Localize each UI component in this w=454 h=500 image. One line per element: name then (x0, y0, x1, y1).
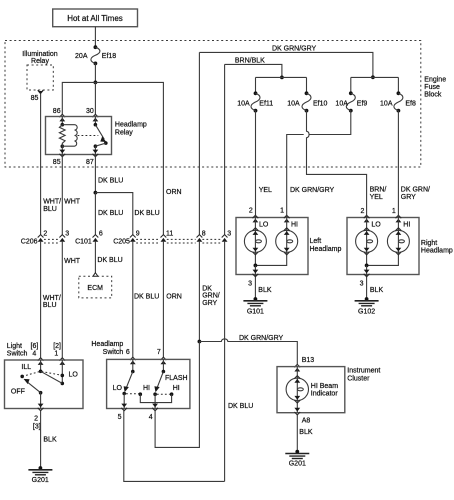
label DK GRN/GRY right HI (401, 186, 430, 201)
svg-text:11: 11 (166, 230, 173, 237)
svg-text:Block: Block (424, 92, 442, 99)
svg-text:Ef11: Ef11 (259, 100, 273, 107)
svg-text:DK BLU: DK BLU (97, 257, 122, 264)
relay U: headlamp relay box (46, 117, 112, 155)
svg-text:LO: LO (371, 222, 381, 229)
node junction on DK BLU (94, 191, 98, 195)
wire junction to ORN drop (95, 82, 163, 234)
svg-text:BLK: BLK (43, 437, 57, 444)
node junction DK GRN/GRY at instrument branch (198, 340, 202, 344)
svg-text:Hot at All Times: Hot at All Times (67, 14, 123, 23)
wire Ef10 top feed (306, 77, 308, 93)
svg-text:[3]: [3] (33, 424, 41, 431)
wire DK BLU junction to C101 pin 6 (94, 193, 96, 235)
wire DK BLU C205-9 to headlamp switch pin 6 (132, 242, 134, 358)
wire DK BLU relay 87 down to junction (94, 155, 96, 193)
wire DK GRN/GRY C205 pin 8 column (198, 52, 200, 234)
wire DK GRN/GRY junction down to headlamp switch pin 4 (155, 342, 199, 448)
svg-text:3: 3 (248, 281, 252, 288)
ground G101 (243, 297, 267, 316)
headlamp switch pin 5 exit arrow (121, 404, 127, 411)
label Light Switch (7, 343, 28, 358)
left headlamp pin 1 entry arrow (284, 215, 290, 222)
fuse Ef11 10A (237, 91, 273, 112)
svg-text:BRN/BLK: BRN/BLK (235, 58, 265, 65)
wire DK GRN/GRY bus top (199, 52, 373, 77)
svg-text:GRN/: GRN/ (202, 293, 220, 300)
headlamp switch pin 6 entry arrow (130, 357, 136, 364)
svg-text:9: 9 (136, 230, 140, 237)
svg-text:ORN: ORN (166, 294, 182, 301)
svg-text:HI: HI (173, 385, 180, 392)
svg-text:DK BLU: DK BLU (228, 403, 253, 410)
right headlamp box (347, 218, 419, 275)
node right headlamp common junction (365, 264, 369, 268)
wire DK BLU C101-6 to ECM (94, 242, 96, 273)
svg-text:6: 6 (126, 349, 130, 356)
svg-text:2: 2 (34, 416, 38, 423)
wire Ef10 with hop over Ef9 jog (307, 111, 367, 216)
node BRN/BLK junction on fuse bus (280, 76, 284, 80)
pin 86 entry arrow (59, 114, 65, 121)
svg-text:FLASH: FLASH (165, 375, 188, 382)
svg-text:85: 85 (53, 159, 61, 166)
light switch pin 2 exit arrow (38, 404, 44, 411)
svg-text:BLK: BLK (258, 287, 272, 294)
wire YEL Ef11 to left headlamp pin 2 (255, 111, 257, 216)
ground G201 light switch (28, 466, 52, 484)
node junction below Ef18 (94, 81, 98, 85)
svg-text:C101: C101 (75, 239, 92, 246)
instrument cluster A8 exit arrow (294, 408, 300, 415)
wire fuse Ef18 to junction (94, 63, 96, 82)
node Hot at All Times box (53, 9, 138, 27)
switch S2: headlamp switch box (107, 359, 190, 408)
wire WHT/BLU C206-2 to light switch pin 4 (40, 242, 42, 358)
node DK GRN/GRY junction on fuse bus (371, 75, 375, 79)
headlamp switch pin 7 entry arrow (161, 357, 167, 364)
ECM dashed box (79, 276, 112, 298)
wire BRN/BLK bus (225, 64, 282, 77)
svg-text:ECM: ECM (87, 285, 103, 292)
wire BRN/BLK C205 pin 3 column (224, 64, 226, 234)
svg-text:Fuse: Fuse (424, 84, 440, 91)
svg-text:DK BLU: DK BLU (134, 210, 159, 217)
svg-text:3: 3 (360, 281, 364, 288)
wire bus Ef11-Ef10 (256, 76, 307, 78)
svg-text:Headlamp: Headlamp (310, 246, 342, 253)
svg-text:Engine: Engine (424, 76, 446, 83)
label WHT/BLU (43, 199, 61, 213)
svg-text:4: 4 (149, 414, 153, 421)
svg-text:C205: C205 (113, 239, 130, 246)
svg-text:Ef9: Ef9 (357, 100, 368, 107)
wire from Hot at All Times down to fuse Ef18 (94, 27, 96, 47)
wire right headlamp to ground (366, 265, 368, 299)
svg-text:WHT: WHT (64, 258, 81, 265)
svg-text:Instrument: Instrument (347, 368, 380, 375)
svg-text:C206: C206 (21, 239, 38, 246)
svg-text:HI: HI (143, 385, 150, 392)
svg-text:ILL: ILL (21, 364, 31, 371)
engine fuse block dashed border (5, 41, 421, 168)
lamp LO left headlamp (244, 215, 266, 265)
svg-text:Headlamp: Headlamp (91, 341, 123, 348)
connector C101 (75, 230, 103, 245)
wire DK GRN/GRY junction to instrument cluster B13 with hop (199, 339, 297, 364)
illumination relay dashed box (27, 65, 53, 90)
svg-text:7: 7 (157, 349, 161, 356)
svg-text:3: 3 (65, 230, 69, 237)
right headlamp pin 3 exit arrow (364, 270, 370, 277)
wire WHT/BLU illumination relay 85 to C206 pin 2 (40, 94, 42, 235)
right headlamp pin 2 entry arrow (364, 215, 370, 222)
svg-text:ORN: ORN (166, 189, 182, 196)
node left headlamp common junction (254, 264, 258, 268)
svg-text:86: 86 (53, 108, 61, 115)
svg-text:HI: HI (291, 222, 298, 229)
label BRN/YEL (370, 186, 387, 201)
svg-text:1: 1 (54, 351, 58, 358)
lamp HI left headlamp (255, 215, 297, 265)
svg-text:DK GRN/GRY: DK GRN/GRY (272, 46, 317, 53)
lamp HI right headlamp (367, 215, 410, 265)
svg-text:5: 5 (118, 414, 122, 421)
svg-text:BLU: BLU (43, 206, 57, 213)
ground G102 (355, 297, 379, 316)
label Engine Fuse Block (424, 76, 446, 98)
wire DK GRN/GRY Ef8 to right headlamp pin 1 (397, 111, 399, 216)
svg-text:G101: G101 (247, 309, 264, 316)
svg-text:10A: 10A (287, 100, 300, 107)
connector C206 (21, 230, 69, 245)
svg-text:1: 1 (280, 208, 284, 215)
svg-text:BLU: BLU (43, 302, 57, 309)
svg-text:HI: HI (403, 222, 410, 229)
left headlamp pin 3 exit arrow (253, 270, 259, 277)
svg-text:2: 2 (360, 208, 364, 215)
svg-text:OFF: OFF (11, 388, 25, 395)
svg-text:85: 85 (31, 95, 39, 102)
svg-text:DK BLU: DK BLU (98, 178, 123, 185)
svg-text:DK: DK (202, 285, 212, 292)
pin 85 exit arrow of illumination relay (31, 90, 44, 102)
label Right Headlamp (421, 240, 453, 255)
label WHT/BLU lower (43, 295, 61, 309)
svg-text:Ef18: Ef18 (102, 53, 117, 60)
fuse Ef8 10A (380, 91, 416, 112)
light switch pin 4 entry arrow (38, 358, 44, 365)
svg-text:8: 8 (202, 230, 206, 237)
relay coil (59, 117, 77, 149)
svg-text:10A: 10A (380, 100, 393, 107)
ECM entry triangle (93, 273, 98, 277)
connector C205 (113, 230, 231, 245)
wire ORN C205-11 to headlamp switch pin 7 (162, 242, 164, 358)
headlamp switch pin 4 exit arrow (152, 404, 158, 411)
right headlamp pin 1 entry arrow (396, 215, 402, 222)
svg-text:6: 6 (99, 230, 103, 237)
svg-text:2: 2 (249, 208, 253, 215)
svg-text:BLK: BLK (370, 287, 384, 294)
svg-text:30: 30 (86, 108, 94, 115)
fuse Ef18 20A (75, 45, 116, 65)
svg-text:YEL: YEL (259, 187, 272, 194)
wire DK BLU bottom to headlamp switch pin 5 (124, 411, 225, 482)
svg-text:WHT: WHT (64, 199, 81, 206)
svg-text:Light: Light (7, 343, 22, 350)
fuse Ef9 10A (335, 91, 367, 112)
svg-text:10A: 10A (335, 100, 348, 107)
svg-text:[2]: [2] (53, 343, 61, 350)
svg-text:Left: Left (310, 238, 322, 245)
svg-text:DK BLU: DK BLU (98, 210, 123, 217)
pin 85 exit arrow (59, 150, 65, 157)
relay coil-switch dashed link (78, 135, 99, 137)
svg-text:Ef8: Ef8 (405, 100, 416, 107)
svg-text:2: 2 (43, 230, 47, 237)
svg-text:Relay: Relay (115, 129, 133, 136)
wire DK BLU C205-3 down (224, 242, 226, 482)
svg-text:GRY: GRY (401, 194, 416, 201)
fuse Ef10 10A (287, 91, 327, 112)
svg-text:DK BLU: DK BLU (134, 294, 159, 301)
svg-text:Relay: Relay (31, 58, 49, 65)
svg-text:LO: LO (259, 222, 269, 229)
svg-text:Illumination: Illumination (22, 51, 58, 58)
svg-text:DK GRN/: DK GRN/ (401, 186, 430, 193)
wire DK GRN/GRY C205-8 down to junction (198, 242, 200, 342)
wire WHT C206-3 to light switch pin 1 (61, 242, 63, 358)
label Illumination Relay (22, 51, 58, 65)
label Instrument Cluster (347, 368, 380, 383)
svg-text:DK GRN/GRY: DK GRN/GRY (290, 187, 335, 194)
svg-text:WHT/: WHT/ (43, 199, 61, 206)
svg-text:1: 1 (392, 208, 396, 215)
svg-text:G102: G102 (358, 309, 375, 316)
wire continuation after hop (287, 135, 304, 216)
ground G201 instrument cluster (285, 450, 309, 468)
light switch internals (11, 360, 78, 409)
label Left Headlamp (310, 238, 342, 253)
wire Ef8 top feed (397, 77, 399, 93)
label DK GRN/GRY mid column (202, 285, 220, 307)
wire left headlamp to ground (254, 265, 256, 299)
wire Ef9 top feed (350, 77, 352, 93)
svg-text:10A: 10A (237, 100, 250, 107)
switch S1: light switch box (5, 360, 84, 409)
label HI Beam Indicator (311, 383, 339, 397)
svg-text:Switch: Switch (103, 349, 124, 356)
svg-text:4: 4 (32, 351, 36, 358)
svg-text:Ef10: Ef10 (313, 100, 328, 107)
left headlamp box (236, 218, 308, 275)
svg-text:20A: 20A (75, 53, 88, 60)
svg-text:Cluster: Cluster (347, 376, 370, 383)
instrument cluster B13 entry arrow (294, 364, 300, 371)
wire Ef9 jog to left headlamp pin 1 (309, 111, 351, 135)
wire bus Ef9-Ef8 (351, 76, 399, 78)
svg-text:LO: LO (69, 372, 79, 379)
svg-text:G201: G201 (32, 477, 49, 484)
svg-text:Switch: Switch (7, 351, 28, 358)
svg-text:B13: B13 (302, 357, 315, 364)
svg-text:HI Beam: HI Beam (311, 383, 338, 390)
svg-text:Headlamp: Headlamp (421, 248, 453, 255)
svg-text:GRY: GRY (202, 300, 217, 307)
wire Ef11 top feed (255, 77, 257, 93)
svg-text:LO: LO (113, 385, 123, 392)
svg-text:Headlamp: Headlamp (115, 122, 147, 129)
wire BLK instrument cluster to ground (296, 415, 298, 452)
instrument cluster box (277, 367, 345, 413)
svg-text:BRN/: BRN/ (370, 186, 387, 193)
pin 30 entry arrow (93, 114, 99, 121)
svg-text:Indicator: Indicator (311, 390, 339, 397)
wire junction to DK BLU drop x133 (95, 193, 132, 235)
svg-text:G201: G201 (289, 461, 306, 468)
headlamp switch internals (113, 359, 188, 408)
lamp LO right headlamp (356, 215, 378, 265)
pin 87 exit arrow (93, 150, 99, 157)
wire BLK light switch to ground (40, 411, 42, 468)
left headlamp pin 2 entry arrow (253, 215, 259, 222)
label Headlamp Relay (115, 122, 147, 137)
svg-text:Right: Right (421, 240, 437, 247)
svg-text:[6]: [6] (31, 343, 39, 350)
svg-text:87: 87 (86, 159, 94, 166)
svg-text:YEL: YEL (370, 194, 383, 201)
label Headlamp Switch (91, 341, 123, 356)
light switch pin 1 entry arrow (59, 358, 65, 365)
svg-text:A8: A8 (302, 417, 311, 424)
relay switch contacts (62, 117, 107, 155)
lamp HI beam indicator (286, 367, 308, 413)
wire WHT relay 85 to C206 pin 3 (61, 155, 63, 235)
wire junction to relay pin 86 (62, 82, 95, 114)
svg-text:3: 3 (227, 230, 231, 237)
wire junction to relay pin 30 (94, 82, 96, 114)
svg-text:DK GRN/GRY: DK GRN/GRY (239, 335, 284, 342)
svg-text:BLK: BLK (299, 429, 313, 436)
